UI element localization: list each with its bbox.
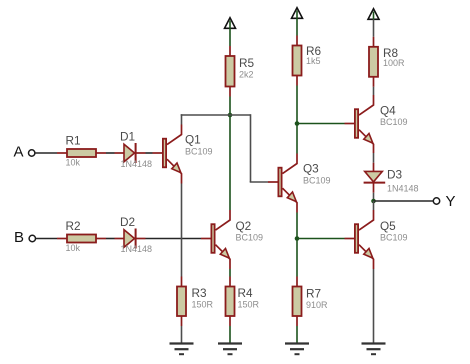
wire D3 to output node — [373, 193, 375, 201]
ground under R3 — [170, 344, 194, 355]
svg-text:Q3: Q3 — [303, 162, 319, 176]
resistor R7 910R — [293, 277, 329, 327]
node junction output Y — [371, 199, 376, 204]
node junction Q3 emitter / Q5 base / R7 — [295, 236, 300, 241]
power VCC arrow above R5 — [225, 18, 236, 29]
svg-text:Q5: Q5 — [380, 219, 396, 233]
diode D2 1N4148 — [115, 215, 153, 254]
wire node to pin Y — [374, 200, 434, 202]
transistor Q1 BC109 — [153, 125, 213, 184]
node junction R6/Q4 base — [295, 121, 300, 126]
wire node down to Q3 collector — [296, 124, 298, 154]
ground under R7 — [285, 344, 309, 355]
svg-text:BC109: BC109 — [380, 233, 408, 243]
transistor Q4 BC109 — [345, 95, 408, 153]
svg-text:D1: D1 — [120, 129, 135, 143]
transistor Q5 BC109 — [345, 210, 408, 269]
wire B to R2 — [36, 238, 57, 240]
svg-text:1N4148: 1N4148 — [121, 244, 153, 254]
svg-text:10k: 10k — [66, 158, 81, 168]
wire R6 to node — [296, 86, 298, 124]
diode D1 1N4148 — [115, 129, 153, 169]
svg-text:10k: 10k — [66, 243, 81, 253]
ground under Q5 — [362, 344, 386, 355]
wire R7 to ground — [296, 326, 298, 343]
svg-text:R1: R1 — [66, 134, 81, 148]
wire D1 to Q1 base — [146, 152, 153, 154]
resistor R4 150R — [226, 277, 260, 327]
pin Y — [433, 193, 455, 210]
wire node down to Q5 collector — [373, 201, 375, 210]
svg-text:2k2: 2k2 — [239, 70, 254, 80]
wire A to R1 — [35, 152, 57, 154]
power VCC arrow above R8 — [368, 9, 379, 20]
resistor R1 10k — [57, 134, 106, 168]
svg-text:D2: D2 — [120, 215, 135, 229]
svg-text:R3: R3 — [192, 286, 208, 300]
wire D2 to Q2 base — [146, 238, 202, 240]
svg-text:Q2: Q2 — [236, 219, 252, 233]
ground under R4 — [218, 344, 242, 355]
wire node to Q4 base — [297, 123, 345, 125]
svg-text:1N4148: 1N4148 — [121, 159, 153, 169]
resistor R8 100R — [369, 37, 405, 87]
svg-text:150R: 150R — [238, 300, 260, 310]
svg-text:Q1: Q1 — [185, 133, 201, 147]
svg-text:910R: 910R — [306, 300, 328, 310]
svg-text:R2: R2 — [66, 219, 81, 233]
wire R4 to ground — [229, 326, 231, 343]
pin B — [14, 229, 36, 246]
wire node down to Q2 collector — [229, 115, 231, 210]
power VCC arrow above R6 — [292, 8, 303, 19]
wire R3 to ground — [181, 326, 183, 343]
wire R8 to Q4 collector — [373, 87, 375, 95]
svg-text:Y: Y — [446, 193, 456, 210]
wire Q1 collector riser — [181, 114, 183, 124]
wire VCC to R6 — [296, 18, 298, 35]
wire Q5 emitter to ground — [373, 269, 375, 343]
svg-text:1N4148: 1N4148 — [387, 184, 419, 194]
wire Q3 emitter to node — [296, 213, 298, 239]
wire VCC to R8 — [373, 19, 375, 37]
svg-text:A: A — [14, 143, 24, 160]
svg-text:BC109: BC109 — [380, 117, 408, 127]
diode D3 1N4148 — [364, 163, 419, 194]
wire VCC to R5 — [229, 28, 231, 46]
svg-text:R7: R7 — [306, 286, 321, 300]
wire node down to R7 — [296, 239, 298, 277]
resistor R6 1k5 — [293, 36, 322, 86]
svg-text:1k5: 1k5 — [306, 56, 321, 66]
resistor R5 2k2 — [226, 46, 255, 97]
svg-text:150R: 150R — [192, 300, 214, 310]
svg-text:100R: 100R — [383, 58, 405, 68]
wire R2 to D2 — [106, 238, 115, 240]
svg-text:R4: R4 — [238, 286, 254, 300]
wire Q1 emitter down to R3 — [181, 184, 183, 277]
wire right vertical down to Q3 base row — [250, 114, 252, 182]
wire R5 to node — [229, 97, 231, 116]
wire top horizontal — [181, 114, 251, 116]
svg-text:Q4: Q4 — [380, 104, 396, 118]
wire node to Q5 base — [297, 238, 345, 240]
svg-text:BC109: BC109 — [303, 175, 331, 185]
node junction R5/top-wire — [228, 113, 233, 118]
svg-text:BC109: BC109 — [185, 146, 213, 156]
svg-text:D3: D3 — [387, 167, 403, 181]
svg-text:B: B — [14, 229, 24, 246]
resistor R3 150R — [177, 277, 214, 327]
pin A — [14, 143, 35, 160]
svg-text:R5: R5 — [239, 56, 255, 70]
transistor Q3 BC109 — [268, 154, 331, 213]
wire Q4 emitter to D3 — [373, 153, 375, 163]
wire R1 to D1 — [106, 152, 115, 154]
resistor R2 10k — [57, 219, 106, 253]
svg-text:BC109: BC109 — [236, 233, 264, 243]
wire Q2 emitter to R4 — [229, 269, 231, 277]
transistor Q2 BC109 — [201, 210, 263, 269]
wire to Q3 base — [250, 181, 268, 183]
